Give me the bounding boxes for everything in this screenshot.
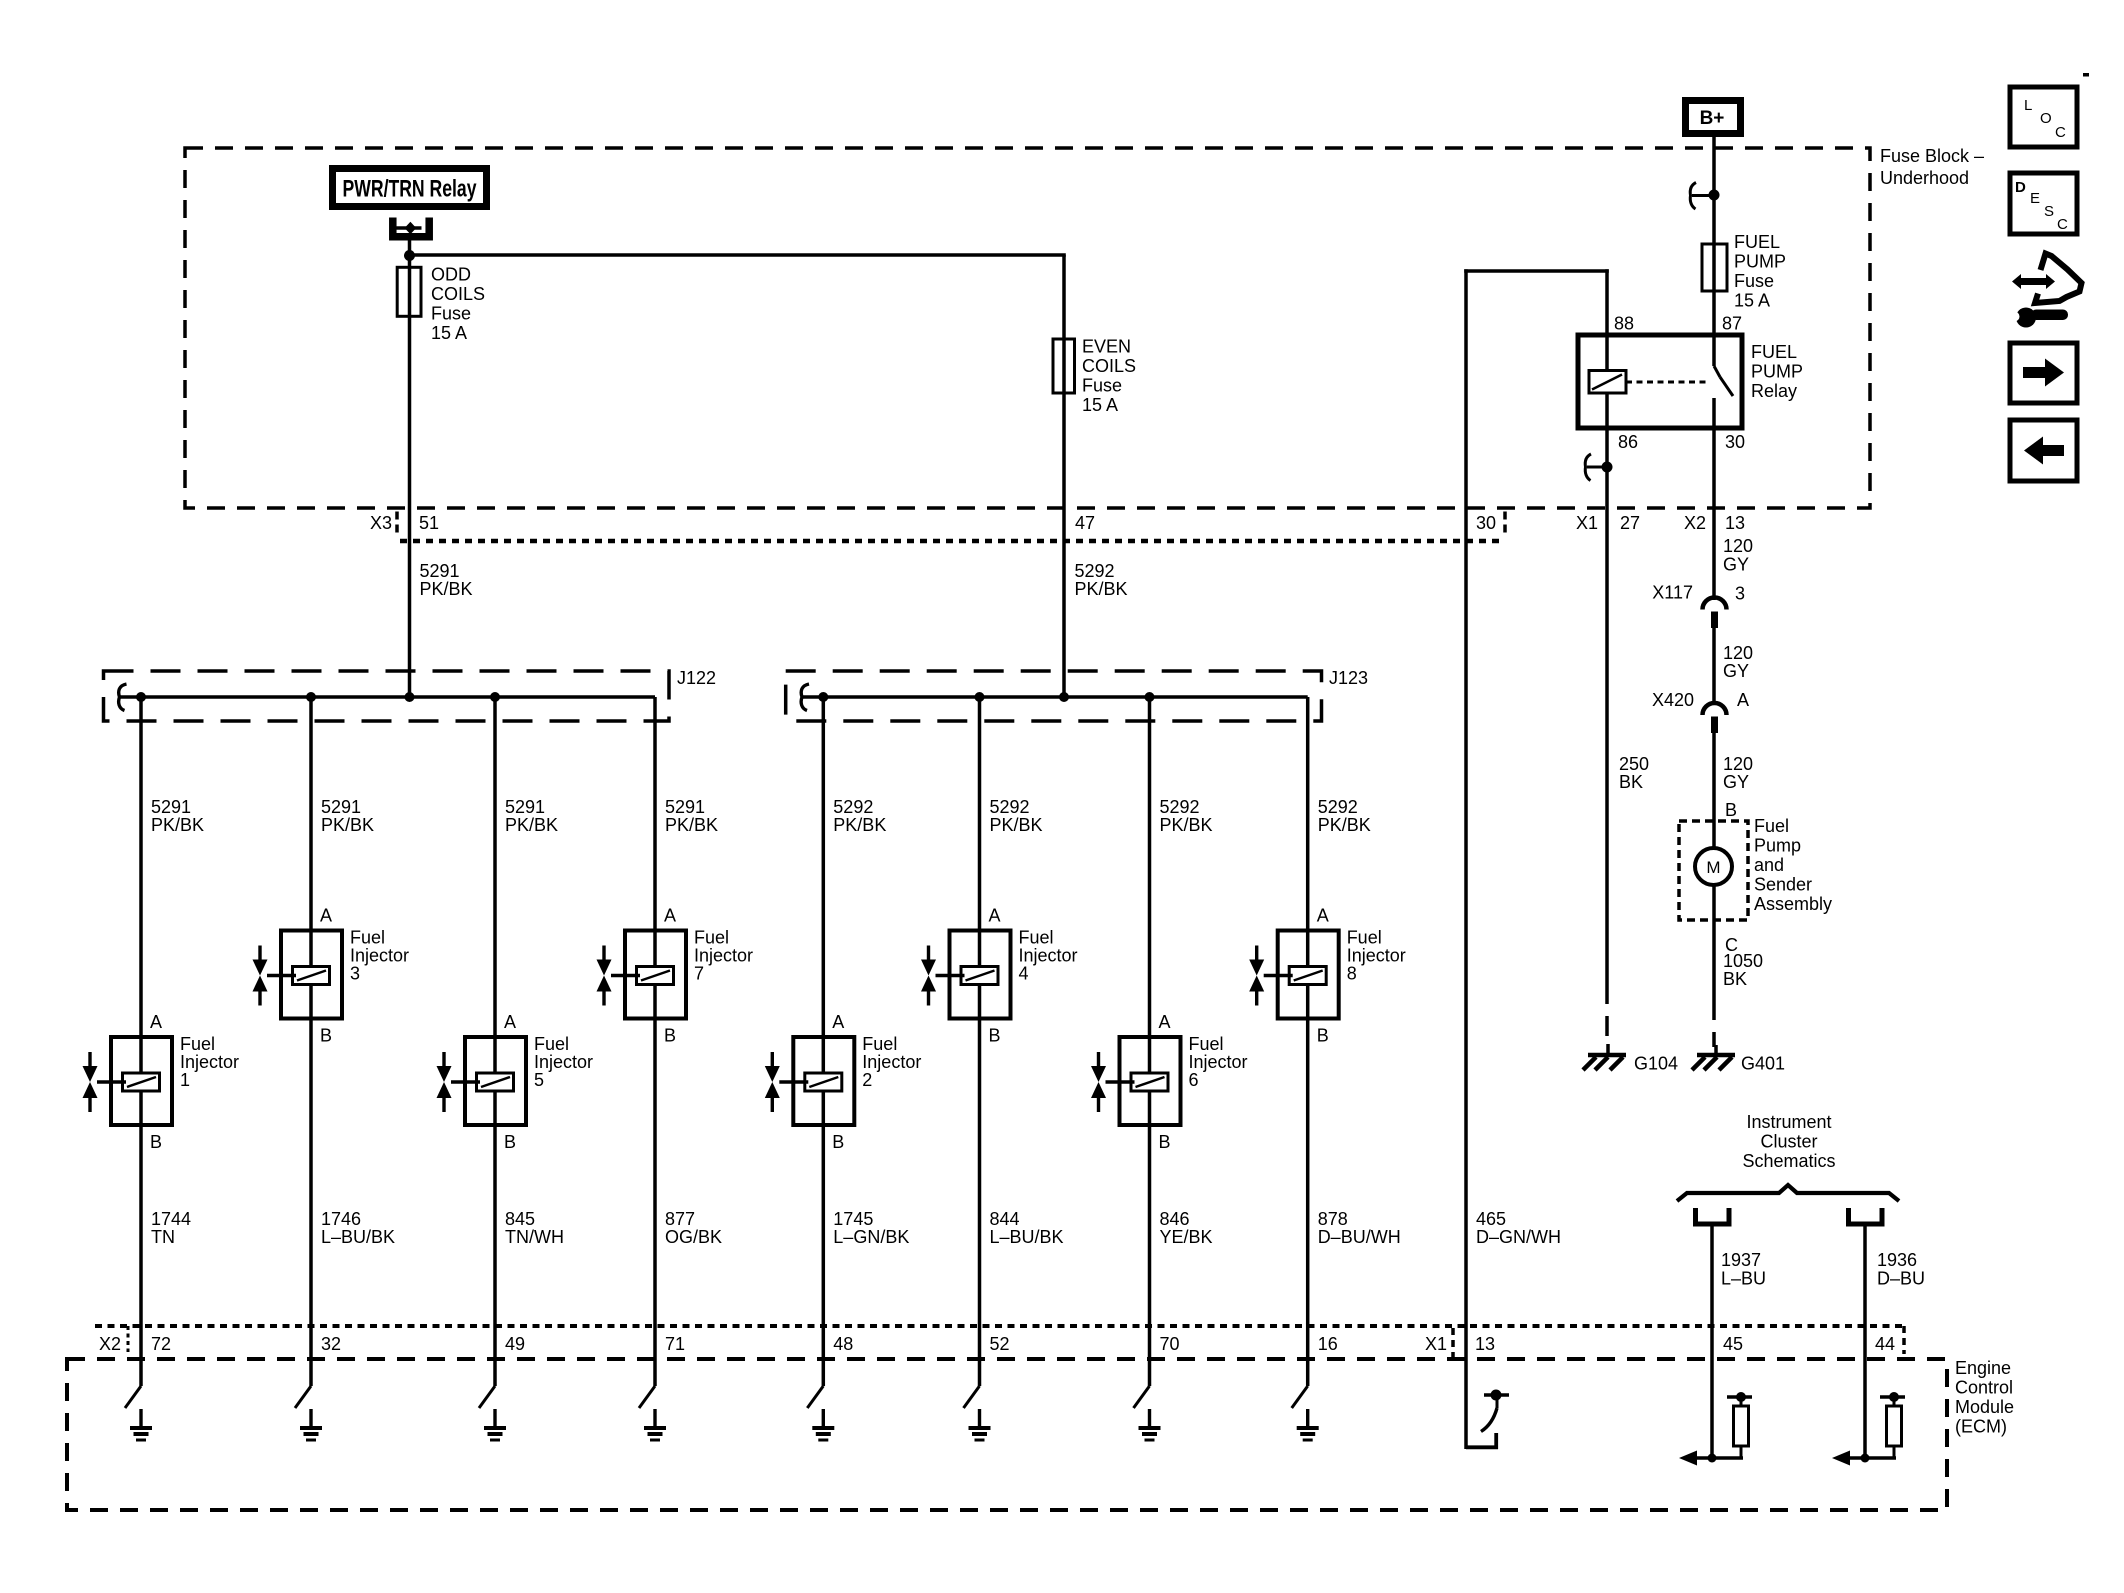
svg-text:TN: TN <box>151 1227 175 1247</box>
wire 1050 BK <box>1712 885 1716 1000</box>
wire relay 86 down <box>1605 428 1609 984</box>
wire odd coils feed down <box>408 255 412 697</box>
svg-text:B: B <box>664 1026 676 1046</box>
svg-text:52: 52 <box>990 1334 1010 1354</box>
wire feed horizontal to even fuse <box>408 253 1066 257</box>
svg-text:120: 120 <box>1723 754 1753 774</box>
fuel injector 2 coil <box>805 1073 842 1091</box>
svg-text:5292: 5292 <box>833 797 873 817</box>
relay switch contact <box>1712 335 1716 366</box>
svg-text:1937: 1937 <box>1721 1250 1761 1270</box>
ECM internal ground injector 4 <box>978 1409 981 1426</box>
svg-text:87: 87 <box>1722 314 1742 334</box>
svg-text:PK/BK: PK/BK <box>420 579 473 599</box>
svg-text:1936: 1936 <box>1877 1250 1917 1270</box>
ECM internal ground injector 1 <box>139 1409 142 1426</box>
svg-text:GY: GY <box>1723 772 1749 792</box>
svg-text:X2: X2 <box>99 1334 121 1354</box>
svg-text:16: 16 <box>1318 1334 1338 1354</box>
svg-text:7: 7 <box>694 964 704 984</box>
fuel injector 7 coil <box>637 967 674 985</box>
svg-text:Fuel: Fuel <box>534 1034 569 1054</box>
svg-text:X117: X117 <box>1652 583 1693 603</box>
svg-text:5291: 5291 <box>151 797 191 817</box>
wire injector 4 circuit <box>978 697 982 1386</box>
svg-text:48: 48 <box>833 1334 853 1354</box>
ECM internal ground injector 6 <box>1148 1409 1151 1426</box>
svg-text:120: 120 <box>1723 536 1753 556</box>
ECM driver switch injector 4 <box>964 1386 980 1408</box>
fuel injector 2 box <box>793 1037 854 1125</box>
svg-text:51: 51 <box>419 513 439 533</box>
icon DESC box <box>2010 173 2077 234</box>
svg-text:8: 8 <box>1347 964 1357 984</box>
svg-text:5292: 5292 <box>990 797 1030 817</box>
ECM internal ground injector 8 <box>1306 1409 1309 1426</box>
svg-text:X3: X3 <box>370 513 392 533</box>
wire 1937 L-BU <box>1710 1227 1714 1459</box>
svg-text:Fuse: Fuse <box>431 304 471 324</box>
svg-text:Engine: Engine <box>1955 1358 2011 1378</box>
wire 120 GY segment 3 <box>1712 733 1716 848</box>
J123 junction dot x1064 <box>1059 692 1069 702</box>
J122 junction dot x409.5 <box>405 692 415 702</box>
dashed wire to G104 <box>1605 984 1609 1046</box>
relay coil <box>1589 371 1626 394</box>
svg-text:1745: 1745 <box>833 1209 873 1229</box>
svg-text:X2: X2 <box>1684 513 1706 533</box>
svg-text:1746: 1746 <box>321 1209 361 1229</box>
svg-text:BK: BK <box>1723 969 1747 989</box>
wire injector 6 circuit <box>1148 697 1152 1386</box>
fuel injector 7 stub <box>611 974 640 977</box>
svg-text:PK/BK: PK/BK <box>321 815 374 835</box>
svg-text:B: B <box>320 1026 332 1046</box>
ECM pullup resistor pin 44 <box>1880 1395 1905 1398</box>
fuse EVEN COILS 15A <box>1053 339 1075 393</box>
connector X117 inline <box>1703 598 1727 610</box>
engine control module dashed box <box>67 1359 1947 1510</box>
svg-text:1050: 1050 <box>1723 951 1763 971</box>
svg-text:47: 47 <box>1075 513 1095 533</box>
fuel injector 5 box <box>465 1037 526 1125</box>
wire PWR/TRN to junction <box>408 240 412 258</box>
ECM internal ground injector 7 <box>653 1409 656 1426</box>
J122 junction dot x311 <box>306 692 316 702</box>
ECM connector tick right <box>1902 1326 1906 1354</box>
wire injector 5 circuit <box>493 697 497 1386</box>
svg-text:C: C <box>2057 216 2068 233</box>
connector X420 inline <box>1703 703 1727 715</box>
svg-text:COILS: COILS <box>1082 356 1136 376</box>
svg-text:E: E <box>2030 190 2040 207</box>
ECM arrow pin 44 <box>1848 1456 1896 1460</box>
ECM driver switch injector 8 <box>1292 1386 1308 1408</box>
wire injector 2 circuit <box>822 697 826 1386</box>
svg-text:D–GN/WH: D–GN/WH <box>1476 1227 1561 1247</box>
svg-text:L–GN/BK: L–GN/BK <box>833 1227 909 1247</box>
connector strip dotted line <box>400 539 1503 544</box>
svg-text:465: 465 <box>1476 1209 1506 1229</box>
svg-text:B: B <box>1725 800 1737 820</box>
icon harness outline <box>2035 254 2082 304</box>
fuse block underhood dashed box <box>185 148 1870 508</box>
B+ power symbol <box>1682 97 1744 137</box>
svg-text:COILS: COILS <box>431 284 485 304</box>
svg-text:877: 877 <box>665 1209 695 1229</box>
fuel injector 3 coil <box>293 967 330 985</box>
brace instrument cluster <box>1677 1185 1899 1201</box>
svg-text:1744: 1744 <box>151 1209 191 1229</box>
svg-text:L: L <box>2024 97 2032 114</box>
relay terminal bracket <box>393 218 429 237</box>
fuel injector 6 box <box>1120 1037 1181 1125</box>
svg-text:D: D <box>2015 179 2026 196</box>
svg-text:5291: 5291 <box>665 797 705 817</box>
ECM driver switch injector 5 <box>479 1386 495 1408</box>
fuel injector 2 stub <box>779 1080 808 1083</box>
svg-text:Fuse: Fuse <box>1082 376 1122 396</box>
svg-text:A: A <box>504 1012 516 1032</box>
svg-text:44: 44 <box>1875 1334 1895 1354</box>
J123 junction dot x979.5 <box>975 692 985 702</box>
svg-text:Fuel: Fuel <box>1754 816 1789 836</box>
svg-text:86: 86 <box>1618 432 1638 452</box>
J122 junction dot x141 <box>136 692 146 702</box>
svg-text:Fuel: Fuel <box>694 928 729 948</box>
fuel injector 5 coil <box>477 1073 514 1091</box>
svg-text:Fuel: Fuel <box>350 928 385 948</box>
svg-text:Relay: Relay <box>1751 381 1797 401</box>
J123 junction dot x823.3 <box>818 692 828 702</box>
J122 bus wire <box>119 695 655 699</box>
icon wrench <box>2016 308 2036 328</box>
fuel injector 4 nozzle valve <box>927 946 930 960</box>
svg-text:Injector: Injector <box>350 946 409 966</box>
svg-text:PUMP: PUMP <box>1734 252 1786 272</box>
fuel injector 6 nozzle valve <box>1097 1052 1100 1066</box>
ECM internal ground injector 5 <box>493 1409 496 1426</box>
ECM pin 13 driver switch <box>1466 1445 1498 1449</box>
svg-text:L–BU/BK: L–BU/BK <box>321 1227 395 1247</box>
svg-text:Underhood: Underhood <box>1880 168 1969 188</box>
ECM connector dotted line <box>95 1324 1905 1328</box>
svg-text:3: 3 <box>350 964 360 984</box>
svg-text:70: 70 <box>1160 1334 1180 1354</box>
ECM internal ground injector 3 <box>309 1409 312 1426</box>
svg-text:Injector: Injector <box>180 1052 239 1072</box>
fuel injector 4 stub <box>936 974 965 977</box>
svg-text:X420: X420 <box>1652 690 1694 710</box>
J123 bus wire <box>802 695 1308 699</box>
ECM driver switch injector 2 <box>807 1386 823 1408</box>
svg-text:Fuel: Fuel <box>1347 928 1382 948</box>
svg-text:5292: 5292 <box>1318 797 1358 817</box>
svg-text:PK/BK: PK/BK <box>505 815 558 835</box>
fuel injector 3 box <box>281 931 342 1019</box>
svg-text:M: M <box>1706 858 1720 877</box>
svg-text:Schematics: Schematics <box>1742 1151 1835 1171</box>
fuel injector 4 box <box>950 931 1011 1019</box>
svg-text:13: 13 <box>1725 513 1745 533</box>
ECM arrow pin 45 <box>1695 1456 1743 1460</box>
junction block J122 dashed box <box>104 671 670 721</box>
svg-text:Control: Control <box>1955 1378 2013 1398</box>
relay FUEL PUMP Relay box <box>1578 335 1742 428</box>
svg-text:49: 49 <box>505 1334 525 1354</box>
svg-text:27: 27 <box>1620 513 1640 533</box>
stray mark top right <box>2083 73 2089 77</box>
svg-text:Cluster: Cluster <box>1760 1132 1817 1152</box>
svg-text:B: B <box>150 1132 162 1152</box>
fuse FUEL PUMP 15A <box>1702 244 1727 291</box>
wire 1936 D-BU <box>1863 1227 1867 1459</box>
svg-text:A: A <box>989 906 1001 926</box>
svg-text:PK/BK: PK/BK <box>1075 579 1128 599</box>
svg-text:5291: 5291 <box>420 561 460 581</box>
svg-text:Fuel: Fuel <box>862 1034 897 1054</box>
ground G104 <box>1606 1044 1610 1054</box>
clip on B+ wire <box>1690 183 1696 210</box>
J123 bus hook <box>801 684 809 711</box>
svg-text:Injector: Injector <box>1189 1052 1248 1072</box>
svg-text:Fuse: Fuse <box>1734 271 1774 291</box>
ECM driver switch injector 7 <box>639 1386 655 1408</box>
svg-text:A: A <box>1317 906 1329 926</box>
svg-text:Fuel: Fuel <box>1019 928 1054 948</box>
fuel injector 8 stub <box>1264 974 1293 977</box>
fuel injector 7 box <box>625 931 686 1019</box>
svg-text:FUEL: FUEL <box>1751 342 1797 362</box>
fuel injector 3 stub <box>267 974 296 977</box>
icon harness double arrow <box>2012 274 2055 289</box>
svg-text:and: and <box>1754 855 1784 875</box>
svg-text:Injector: Injector <box>1019 946 1078 966</box>
svg-text:Fuse Block –: Fuse Block – <box>1880 146 1984 166</box>
wire injector 8 circuit <box>1306 697 1310 1386</box>
svg-text:C: C <box>2055 124 2066 141</box>
svg-text:845: 845 <box>505 1209 535 1229</box>
svg-text:15 A: 15 A <box>1082 395 1118 415</box>
ECM internal ground injector 2 <box>822 1409 825 1426</box>
svg-text:A: A <box>664 906 676 926</box>
svg-text:B: B <box>989 1026 1001 1046</box>
svg-text:A: A <box>1737 690 1749 710</box>
svg-text:5291: 5291 <box>505 797 545 817</box>
svg-text:X1: X1 <box>1576 513 1598 533</box>
svg-text:O: O <box>2040 110 2052 127</box>
cluster connector left <box>1696 1208 1730 1224</box>
relay coil wire internal <box>1605 335 1609 428</box>
dashed wire to G401 <box>1712 1000 1716 1047</box>
svg-text:Instrument: Instrument <box>1746 1112 1831 1132</box>
svg-text:A: A <box>1159 1012 1171 1032</box>
svg-text:L–BU/BK: L–BU/BK <box>990 1227 1064 1247</box>
svg-text:PWR/TRN Relay: PWR/TRN Relay <box>343 176 477 203</box>
fuel injector 2 nozzle valve <box>771 1052 774 1066</box>
svg-text:1: 1 <box>180 1070 190 1090</box>
svg-text:FUEL: FUEL <box>1734 232 1780 252</box>
svg-text:X1: X1 <box>1425 1334 1447 1354</box>
junction block J123 dashed box <box>786 671 1322 721</box>
svg-text:PK/BK: PK/BK <box>833 815 886 835</box>
PWR/TRN Relay label box <box>329 165 490 210</box>
svg-text:5: 5 <box>534 1070 544 1090</box>
J123 junction dot x1149.5 <box>1145 692 1155 702</box>
wire relay 88 up-over-left <box>1605 269 1609 335</box>
svg-text:846: 846 <box>1160 1209 1190 1229</box>
connector strip tick right <box>1503 512 1507 536</box>
svg-text:G104: G104 <box>1634 1054 1678 1074</box>
wire B+ to fuel pump fuse <box>1712 137 1716 335</box>
svg-text:3: 3 <box>1735 584 1745 604</box>
svg-text:878: 878 <box>1318 1209 1348 1229</box>
svg-text:5292: 5292 <box>1075 561 1115 581</box>
wire injector 7 circuit <box>653 697 657 1386</box>
ECM driver switch injector 3 <box>295 1386 311 1408</box>
svg-text:B: B <box>1317 1026 1329 1046</box>
icon forward arrow box <box>2010 343 2077 403</box>
svg-text:15 A: 15 A <box>1734 291 1770 311</box>
wire even coils feed down <box>1062 255 1066 697</box>
svg-text:G401: G401 <box>1741 1054 1785 1074</box>
svg-text:PK/BK: PK/BK <box>151 815 204 835</box>
svg-text:J122: J122 <box>677 668 716 688</box>
svg-text:D–BU: D–BU <box>1877 1269 1925 1289</box>
svg-text:Fuel: Fuel <box>1189 1034 1224 1054</box>
svg-text:PK/BK: PK/BK <box>665 815 718 835</box>
motor M fuel pump <box>1695 848 1732 885</box>
svg-text:OG/BK: OG/BK <box>665 1227 722 1247</box>
svg-text:EVEN: EVEN <box>1082 337 1131 357</box>
svg-text:30: 30 <box>1476 513 1496 533</box>
wire relay 30 down <box>1712 428 1716 600</box>
ground G401 <box>1714 1045 1718 1054</box>
svg-text:30: 30 <box>1725 432 1745 452</box>
fuel injector 4 coil <box>961 967 998 985</box>
ECM driver switch injector 6 <box>1134 1386 1150 1408</box>
fuel injector 7 nozzle valve <box>602 946 605 960</box>
fuel injector 1 nozzle valve <box>88 1052 91 1066</box>
fuel injector 3 nozzle valve <box>258 946 261 960</box>
cluster connector right <box>1849 1208 1883 1224</box>
svg-text:Injector: Injector <box>862 1052 921 1072</box>
svg-text:88: 88 <box>1614 314 1634 334</box>
fuel injector 5 nozzle valve <box>442 1052 445 1066</box>
wire injector 1 circuit <box>139 697 143 1386</box>
junction dot feed <box>404 250 415 261</box>
fuel injector 1 coil <box>123 1073 160 1091</box>
svg-text:A: A <box>832 1012 844 1032</box>
svg-text:PK/BK: PK/BK <box>1160 815 1213 835</box>
fuel injector 1 box <box>111 1037 172 1125</box>
ECM connector tick X1 <box>1451 1328 1455 1360</box>
svg-text:45: 45 <box>1723 1334 1743 1354</box>
svg-text:BK: BK <box>1619 772 1643 792</box>
fuel injector 5 stub <box>451 1080 480 1083</box>
relay dashed actuator link <box>1626 381 1706 384</box>
svg-text:A: A <box>150 1012 162 1032</box>
svg-text:PUMP: PUMP <box>1751 362 1803 382</box>
fuel injector 6 stub <box>1106 1080 1135 1083</box>
svg-text:4: 4 <box>1019 964 1029 984</box>
svg-text:B: B <box>504 1132 516 1152</box>
svg-text:PK/BK: PK/BK <box>1318 815 1371 835</box>
icon back arrow box <box>2010 420 2077 481</box>
svg-text:Module: Module <box>1955 1397 2014 1417</box>
fuse ODD COILS 15A <box>397 267 421 316</box>
svg-text:(ECM): (ECM) <box>1955 1417 2007 1437</box>
svg-text:Assembly: Assembly <box>1754 894 1832 914</box>
svg-text:15 A: 15 A <box>431 323 467 343</box>
svg-text:GY: GY <box>1723 555 1749 575</box>
ECM pullup resistor pin 45 <box>1727 1395 1752 1398</box>
svg-text:J123: J123 <box>1329 668 1368 688</box>
svg-text:6: 6 <box>1189 1070 1199 1090</box>
fuel injector 8 box <box>1278 931 1339 1019</box>
wire 120 GY segment 2 <box>1712 628 1716 703</box>
fuel pump and sender dashed box <box>1679 821 1748 920</box>
svg-text:Sender: Sender <box>1754 875 1812 895</box>
J122 bus hook <box>119 684 127 711</box>
svg-text:ODD: ODD <box>431 265 471 285</box>
svg-text:13: 13 <box>1475 1334 1495 1354</box>
ECM connector tick X2 <box>127 1326 130 1352</box>
svg-text:2: 2 <box>862 1070 872 1090</box>
svg-text:Pump: Pump <box>1754 836 1801 856</box>
svg-text:TN/WH: TN/WH <box>505 1227 564 1247</box>
icon LOC box <box>2010 87 2077 147</box>
wire injector 3 circuit <box>309 697 313 1386</box>
svg-text:5291: 5291 <box>321 797 361 817</box>
fuel injector 1 stub <box>97 1080 126 1083</box>
svg-text:B: B <box>832 1132 844 1152</box>
ECM driver switch injector 1 <box>125 1386 141 1408</box>
svg-text:GY: GY <box>1723 661 1749 681</box>
svg-text:B+: B+ <box>1700 108 1725 129</box>
svg-text:PK/BK: PK/BK <box>990 815 1043 835</box>
svg-text:120: 120 <box>1723 643 1753 663</box>
connector strip tick X3 <box>395 512 399 536</box>
svg-text:L–BU: L–BU <box>1721 1269 1766 1289</box>
svg-text:Injector: Injector <box>694 946 753 966</box>
svg-text:D–BU/WH: D–BU/WH <box>1318 1227 1401 1247</box>
J122 junction dot x495 <box>490 692 500 702</box>
svg-text:Injector: Injector <box>1347 946 1406 966</box>
svg-text:5292: 5292 <box>1160 797 1200 817</box>
fuel injector 6 coil <box>1131 1073 1168 1091</box>
svg-text:32: 32 <box>321 1334 341 1354</box>
svg-text:Injector: Injector <box>534 1052 593 1072</box>
svg-text:72: 72 <box>151 1334 171 1354</box>
svg-text:Fuel: Fuel <box>180 1034 215 1054</box>
svg-text:844: 844 <box>990 1209 1020 1229</box>
fuel injector 8 coil <box>1289 967 1326 985</box>
svg-text:B: B <box>1159 1132 1171 1152</box>
svg-text:S: S <box>2044 203 2054 220</box>
clip on 86 wire <box>1585 454 1591 481</box>
svg-text:YE/BK: YE/BK <box>1160 1227 1213 1247</box>
svg-text:71: 71 <box>665 1334 685 1354</box>
svg-text:A: A <box>320 906 332 926</box>
svg-text:250: 250 <box>1619 754 1649 774</box>
fuel injector 8 nozzle valve <box>1255 946 1258 960</box>
